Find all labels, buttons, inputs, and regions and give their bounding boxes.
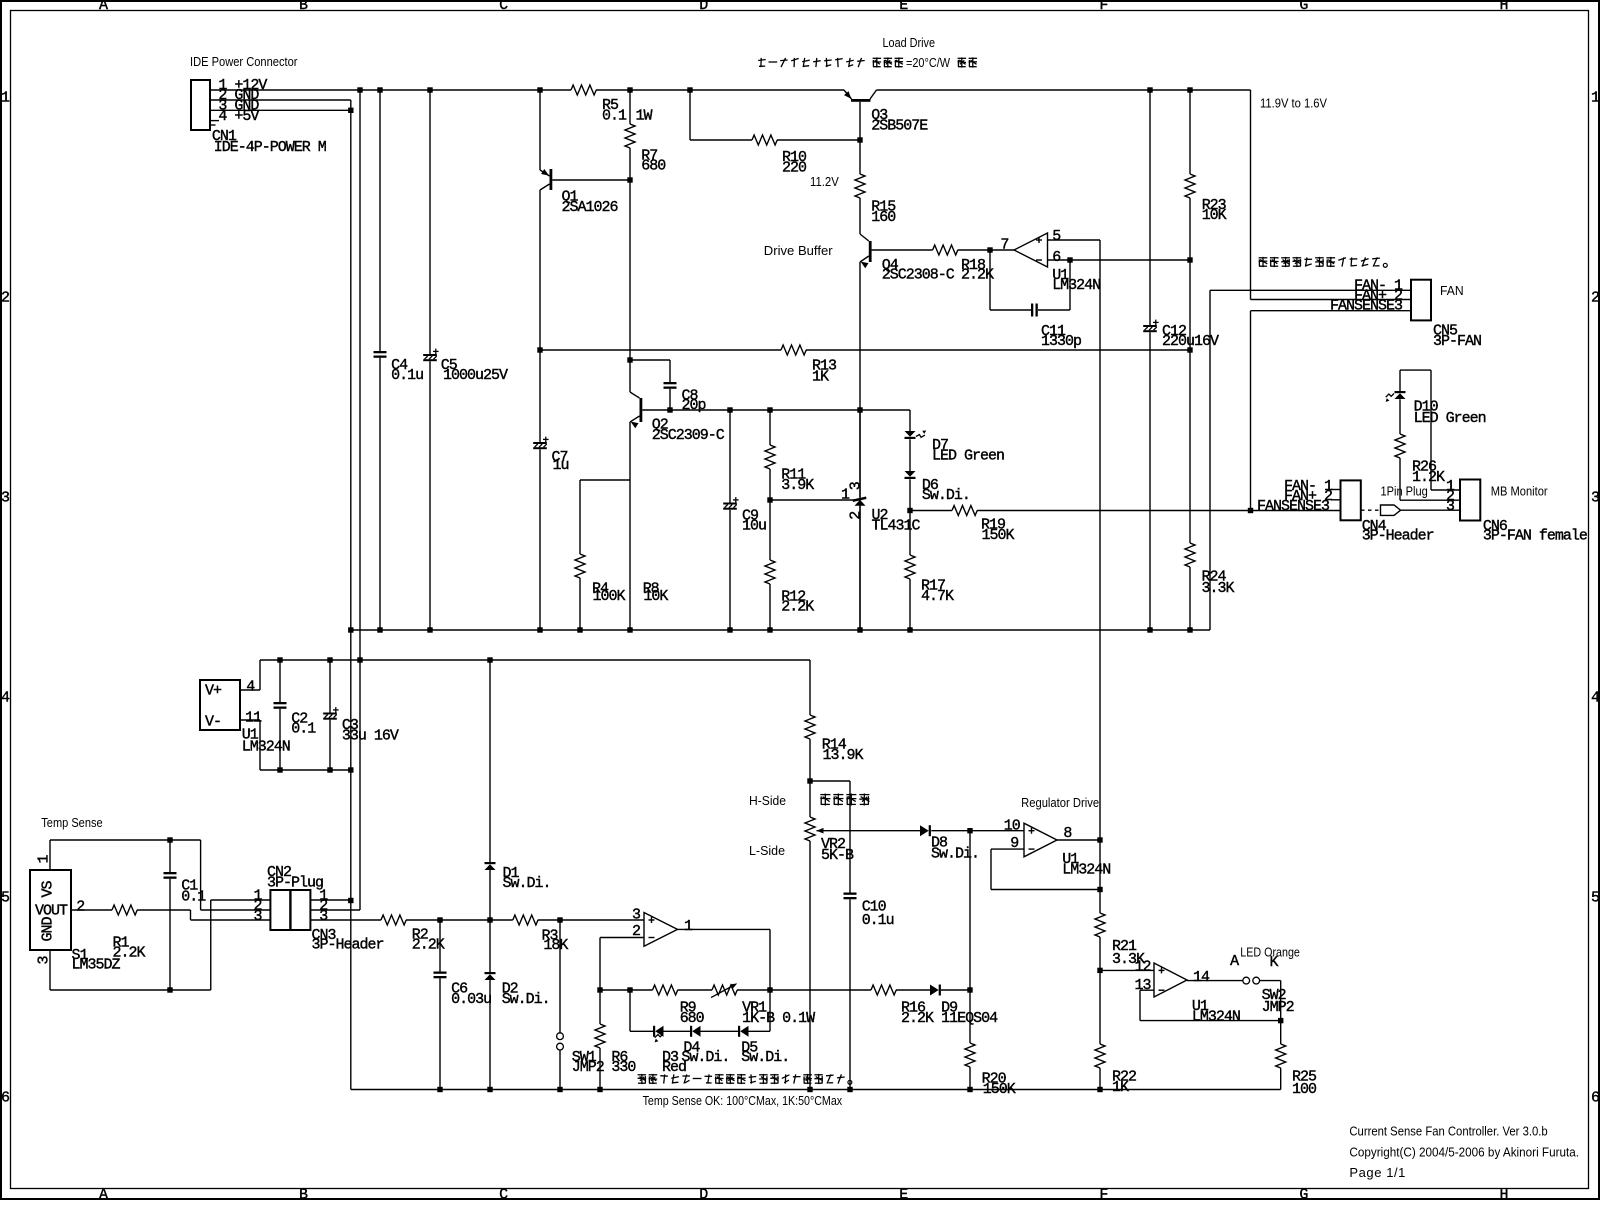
svg-text:14: 14 bbox=[1193, 969, 1210, 986]
svg-text:F: F bbox=[1099, 0, 1107, 14]
svg-text:2: 2 bbox=[847, 512, 864, 520]
svg-text:2: 2 bbox=[632, 923, 640, 940]
svg-text:IDE-4P-POWER M: IDE-4P-POWER M bbox=[214, 139, 327, 156]
svg-text:9: 9 bbox=[1010, 835, 1018, 852]
svg-text:2: 2 bbox=[1, 290, 9, 307]
svg-text:Regulator Drive: Regulator Drive bbox=[1021, 795, 1099, 810]
svg-text:12: 12 bbox=[1135, 959, 1151, 976]
svg-text:3.3K: 3.3K bbox=[1202, 580, 1235, 597]
svg-text:G: G bbox=[1299, 0, 1308, 14]
svg-text:LM324N: LM324N bbox=[1062, 861, 1110, 878]
svg-text:3: 3 bbox=[254, 908, 263, 925]
svg-text:LM324N: LM324N bbox=[242, 739, 290, 756]
svg-text:2SC2309-C: 2SC2309-C bbox=[652, 427, 725, 444]
svg-text:E: E bbox=[899, 0, 908, 14]
svg-text:100K: 100K bbox=[593, 588, 626, 605]
svg-text:LED Orange: LED Orange bbox=[1240, 945, 1300, 960]
svg-text:G: G bbox=[1299, 1187, 1308, 1200]
svg-text:V+: V+ bbox=[205, 682, 222, 699]
svg-text:6: 6 bbox=[1591, 1090, 1600, 1107]
svg-text:Load Drive: Load Drive bbox=[883, 35, 936, 50]
svg-text:4.7K: 4.7K bbox=[921, 588, 954, 605]
svg-text:2SB507E: 2SB507E bbox=[871, 118, 928, 135]
svg-text:1K: 1K bbox=[812, 369, 829, 386]
svg-text:100: 100 bbox=[1292, 1081, 1317, 1098]
svg-text:LM324N: LM324N bbox=[1052, 277, 1100, 294]
svg-text:Sw.Di.: Sw.Di. bbox=[931, 846, 979, 863]
svg-text:H: H bbox=[1499, 1187, 1507, 1200]
svg-text:3P-FAN female: 3P-FAN female bbox=[1483, 527, 1588, 544]
svg-text:0.03u: 0.03u bbox=[451, 991, 491, 1008]
svg-text:Sw.Di.: Sw.Di. bbox=[503, 875, 551, 892]
svg-text:IDE Power Connector: IDE Power Connector bbox=[190, 54, 298, 69]
svg-text:680: 680 bbox=[641, 158, 666, 175]
svg-text:3: 3 bbox=[1446, 498, 1455, 515]
svg-text:Sw.Di.: Sw.Di. bbox=[741, 1049, 789, 1066]
svg-text:11: 11 bbox=[245, 709, 262, 726]
svg-text:10: 10 bbox=[1004, 817, 1021, 834]
svg-text:3: 3 bbox=[847, 481, 864, 490]
svg-text:LED Green: LED Green bbox=[932, 447, 1004, 464]
svg-text:Sw.Di.: Sw.Di. bbox=[502, 991, 550, 1008]
svg-text:6: 6 bbox=[1052, 249, 1061, 266]
svg-text:3P-Plug: 3P-Plug bbox=[267, 875, 323, 892]
svg-text:4: 4 bbox=[246, 679, 255, 696]
svg-text:7: 7 bbox=[1000, 237, 1008, 254]
svg-text:LM324N: LM324N bbox=[1192, 1008, 1240, 1025]
svg-text:0.1: 0.1 bbox=[181, 888, 206, 905]
svg-text:Drive Buffer: Drive Buffer bbox=[764, 243, 833, 258]
svg-text:1: 1 bbox=[1591, 90, 1600, 107]
svg-text:Sw.Di.: Sw.Di. bbox=[681, 1049, 729, 1066]
svg-text:A: A bbox=[1230, 953, 1239, 970]
svg-text:Copyright(C) 2004/5-2006 by Ak: Copyright(C) 2004/5-2006 by Akinori Furu… bbox=[1349, 1145, 1579, 1160]
svg-text:A: A bbox=[99, 1187, 108, 1200]
svg-text:Temp Sense OK: 100°CMax, 1K:50: Temp Sense OK: 100°CMax, 1K:50°CMax bbox=[643, 1093, 843, 1108]
svg-text:0.1: 0.1 bbox=[291, 721, 316, 738]
svg-text:2.2K: 2.2K bbox=[412, 937, 445, 954]
svg-text:Page 1/1: Page 1/1 bbox=[1349, 1165, 1405, 1180]
svg-text:D: D bbox=[699, 0, 708, 14]
svg-text:220: 220 bbox=[782, 160, 807, 177]
svg-text:B: B bbox=[299, 0, 308, 14]
svg-text:2SA1026: 2SA1026 bbox=[562, 199, 619, 216]
svg-text:MB Monitor: MB Monitor bbox=[1491, 484, 1548, 499]
svg-text:3P-Header: 3P-Header bbox=[312, 937, 384, 954]
svg-text:3: 3 bbox=[36, 956, 53, 965]
svg-text:0.1u: 0.1u bbox=[862, 912, 894, 929]
svg-text:2SC2308-C: 2SC2308-C bbox=[882, 266, 955, 283]
svg-text:2.2K: 2.2K bbox=[781, 599, 814, 616]
svg-text:10K: 10K bbox=[1202, 207, 1227, 224]
svg-text:0.1u: 0.1u bbox=[391, 367, 423, 384]
svg-text:LM35DZ: LM35DZ bbox=[72, 957, 121, 974]
svg-text:F: F bbox=[1099, 1187, 1107, 1200]
svg-text:1K-B 0.1W: 1K-B 0.1W bbox=[742, 1010, 815, 1027]
svg-text:H-Side: H-Side bbox=[749, 793, 786, 808]
svg-text:330: 330 bbox=[611, 1059, 636, 1076]
svg-text:FANSENSE3: FANSENSE3 bbox=[1330, 298, 1403, 315]
svg-text:3: 3 bbox=[632, 907, 641, 924]
svg-text:3P-FAN: 3P-FAN bbox=[1433, 333, 1481, 350]
svg-text:V-: V- bbox=[205, 713, 221, 730]
svg-text:1330p: 1330p bbox=[1041, 333, 1081, 350]
svg-text:4 +5V: 4 +5V bbox=[218, 108, 259, 125]
svg-text:0.1: 0.1 bbox=[602, 107, 627, 124]
svg-text:E: E bbox=[899, 1187, 908, 1200]
svg-text:3.9K: 3.9K bbox=[781, 477, 814, 494]
svg-text:VS: VS bbox=[40, 880, 57, 897]
svg-text:220u16V: 220u16V bbox=[1162, 333, 1219, 350]
svg-text:1: 1 bbox=[36, 855, 53, 864]
svg-text:3: 3 bbox=[1, 490, 10, 507]
svg-text:FAN: FAN bbox=[1440, 283, 1464, 298]
svg-text:LED Green: LED Green bbox=[1414, 410, 1486, 427]
svg-text:10u: 10u bbox=[742, 517, 766, 534]
svg-text:1u: 1u bbox=[553, 457, 569, 474]
svg-text:L-Side: L-Side bbox=[749, 843, 785, 858]
svg-text:20p: 20p bbox=[682, 397, 706, 414]
svg-text:FANSENSE3: FANSENSE3 bbox=[1257, 498, 1330, 515]
svg-text:13: 13 bbox=[1135, 977, 1152, 994]
svg-text:11.9V to 1.6V: 11.9V to 1.6V bbox=[1260, 95, 1327, 110]
svg-text:JMP2: JMP2 bbox=[1262, 999, 1294, 1016]
svg-text:1Pin Plug: 1Pin Plug bbox=[1381, 484, 1428, 499]
svg-text:5: 5 bbox=[1052, 228, 1061, 245]
svg-text:6: 6 bbox=[1, 1090, 10, 1107]
svg-text:160: 160 bbox=[871, 209, 896, 226]
svg-text:150K: 150K bbox=[982, 527, 1015, 544]
svg-text:Sw.Di.: Sw.Di. bbox=[922, 487, 970, 504]
svg-text:680: 680 bbox=[680, 1010, 705, 1027]
svg-text:JMP2: JMP2 bbox=[572, 1059, 604, 1076]
svg-text:2: 2 bbox=[76, 898, 84, 915]
svg-text:11EQS04: 11EQS04 bbox=[941, 1010, 998, 1027]
svg-text:8: 8 bbox=[1063, 825, 1072, 842]
svg-text:5K-B: 5K-B bbox=[821, 847, 854, 864]
svg-text:18K: 18K bbox=[543, 937, 568, 954]
svg-text:1: 1 bbox=[1, 90, 10, 107]
svg-text:=20°C/W: =20°C/W bbox=[906, 55, 951, 70]
svg-text:5: 5 bbox=[1, 890, 10, 907]
svg-text:10K: 10K bbox=[643, 588, 668, 605]
svg-text:2.2K: 2.2K bbox=[961, 266, 994, 283]
svg-text:1000u25V: 1000u25V bbox=[443, 367, 508, 384]
svg-text:4: 4 bbox=[1591, 690, 1600, 707]
svg-text:5: 5 bbox=[1591, 890, 1600, 907]
svg-text:150K: 150K bbox=[983, 1081, 1016, 1098]
svg-text:3: 3 bbox=[319, 908, 328, 925]
svg-text:13.9K: 13.9K bbox=[823, 747, 864, 764]
svg-text:11.2V: 11.2V bbox=[810, 174, 839, 189]
svg-text:33u 16V: 33u 16V bbox=[342, 727, 399, 744]
svg-text:TL431C: TL431C bbox=[872, 517, 921, 534]
svg-text:2: 2 bbox=[1591, 290, 1599, 307]
svg-text:1: 1 bbox=[684, 918, 693, 935]
svg-text:C: C bbox=[499, 1187, 508, 1200]
svg-text:1K: 1K bbox=[1112, 1079, 1129, 1096]
svg-text:3P-Header: 3P-Header bbox=[1362, 527, 1434, 544]
svg-text:3: 3 bbox=[1591, 490, 1600, 507]
svg-text:B: B bbox=[299, 1187, 308, 1200]
svg-text:D: D bbox=[699, 1187, 708, 1200]
svg-text:Current Sense Fan Controller.: Current Sense Fan Controller. Ver 3.0.b bbox=[1349, 1124, 1547, 1139]
svg-text:GND: GND bbox=[40, 916, 57, 941]
svg-text:C: C bbox=[499, 0, 508, 14]
svg-text:A: A bbox=[99, 0, 108, 14]
svg-text:2.2K: 2.2K bbox=[901, 1010, 934, 1027]
svg-text:VOUT: VOUT bbox=[35, 903, 68, 920]
svg-text:1W: 1W bbox=[636, 107, 653, 124]
svg-text:Temp Sense: Temp Sense bbox=[41, 815, 102, 830]
svg-text:H: H bbox=[1499, 0, 1507, 14]
svg-text:4: 4 bbox=[1, 690, 10, 707]
